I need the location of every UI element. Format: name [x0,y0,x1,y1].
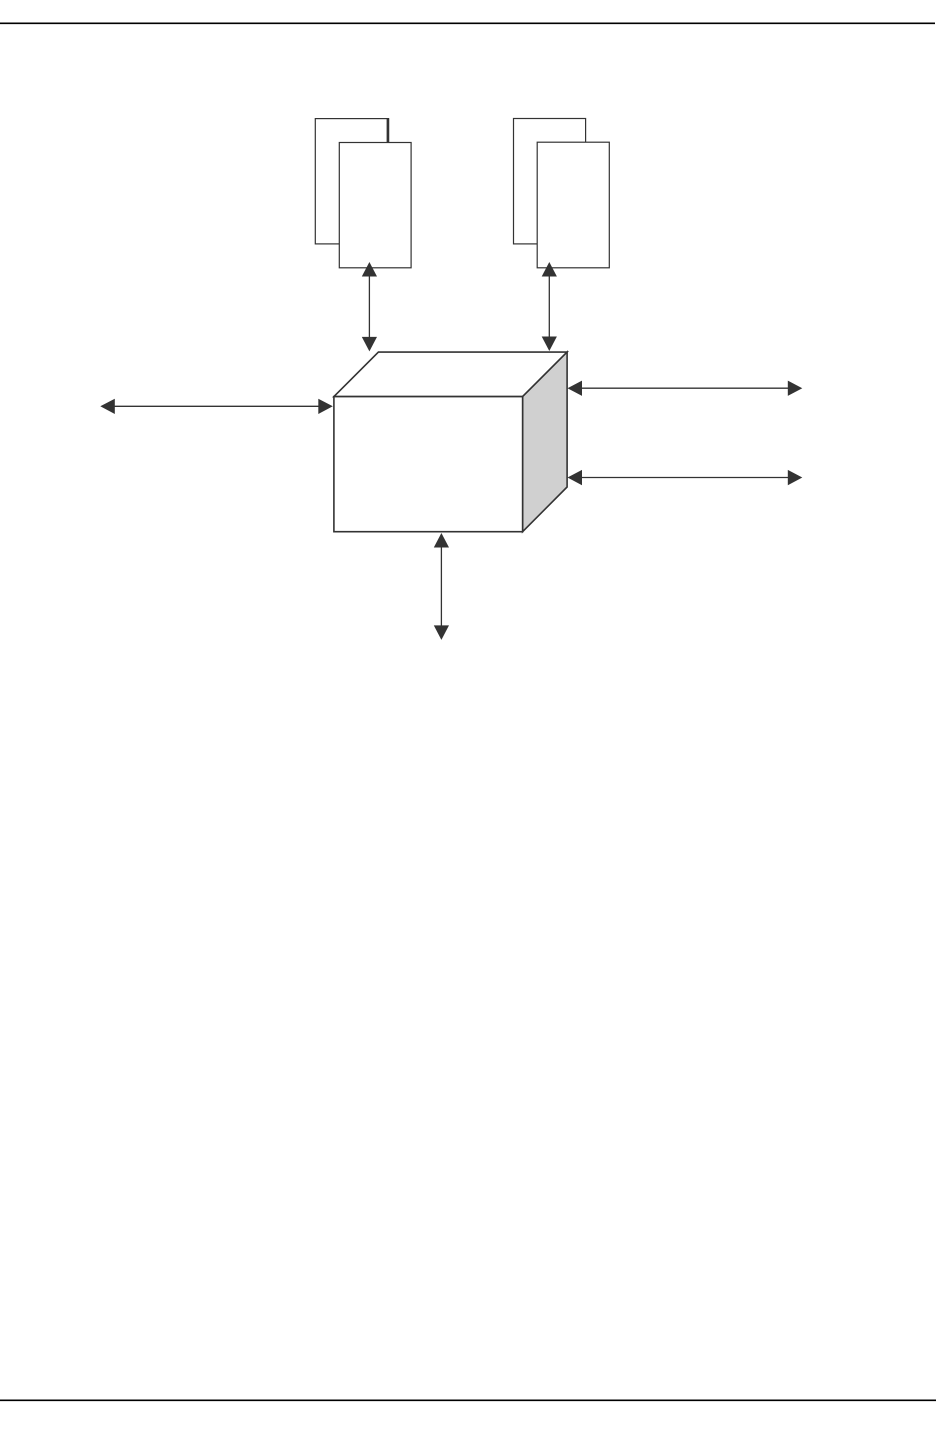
vertical double arrow: left documents to cube [362,262,377,351]
horizontal double arrow: left of cube [100,399,332,414]
vertical double arrow: below cube [434,533,449,640]
cube right face (shaded) [523,352,568,532]
right document stack: back sheet [514,119,586,244]
right document stack: front sheet [537,142,609,268]
left document stack: thick right edge of back sheet [387,118,390,142]
cube top face [334,352,567,397]
left document stack: back sheet [315,119,388,244]
horizontal double arrow: upper right of cube [568,381,803,396]
footer rule [0,1399,936,1401]
cube front face [334,397,523,532]
horizontal double arrow: lower right of cube [568,470,803,485]
vertical double arrow: right documents to cube [542,262,557,351]
header rule [0,22,935,24]
left document stack: front sheet [339,143,411,268]
